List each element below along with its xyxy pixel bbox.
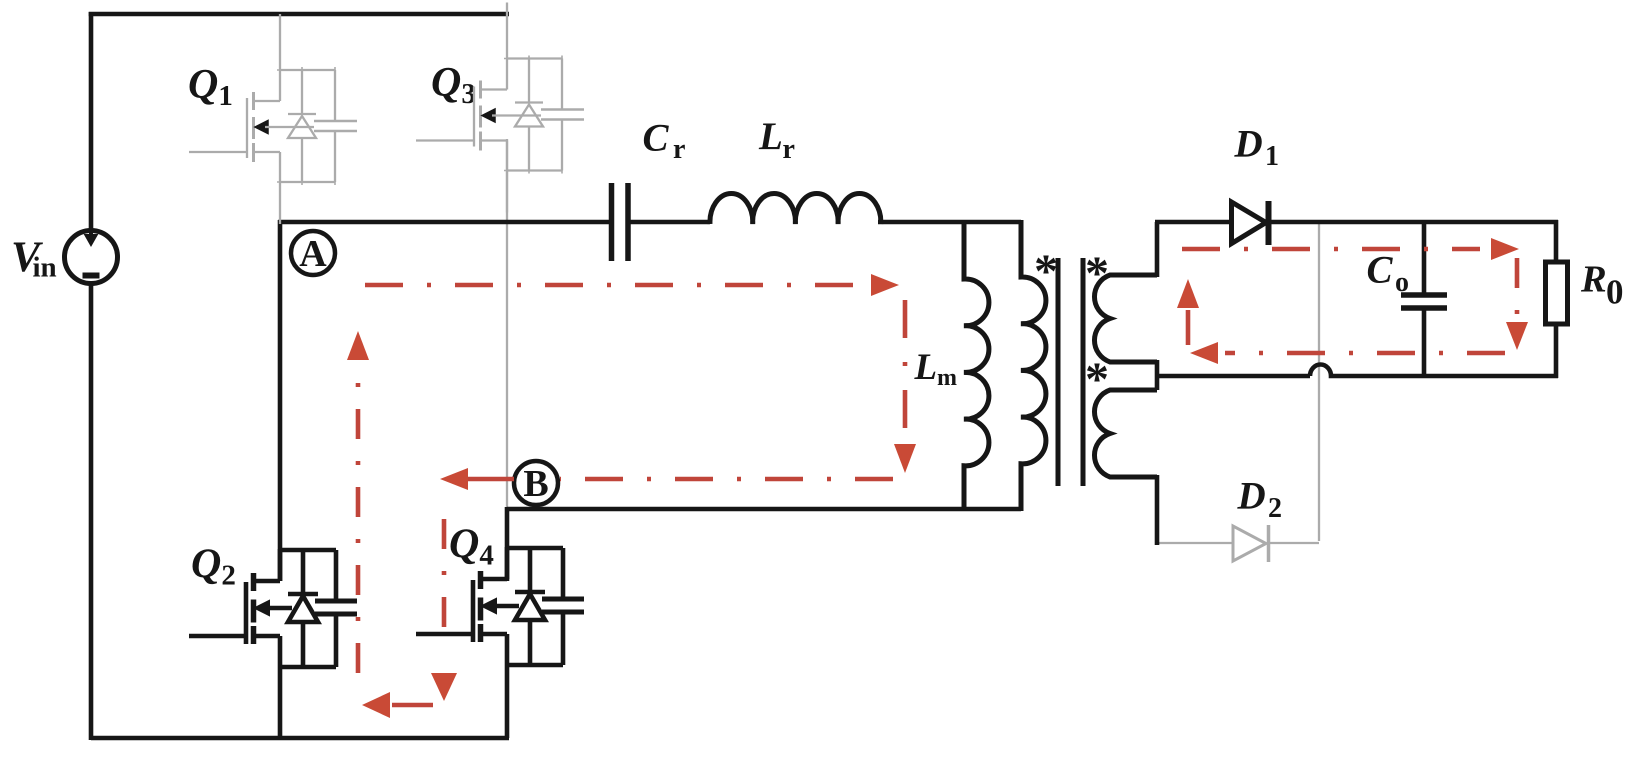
capacitor Cr [612,117,686,262]
current path B to arrow [468,477,514,482]
wire R0 right leg [1554,220,1559,378]
wire D2 horizontal (inactive) [1157,542,1319,544]
svg-text:*: * [1085,353,1109,406]
diode D2 [1233,475,1282,563]
current path secondary left up [1186,310,1191,345]
current path arrow up secondary [1177,279,1199,308]
diode D1 [1232,123,1280,246]
resistor R0 [1546,259,1624,325]
svg-text:L: L [914,347,938,388]
node B [514,461,558,505]
current path arrow right [871,274,899,296]
svg-text:r: r [783,134,795,165]
transistor Q2 [189,542,357,741]
current path primary right down [903,300,908,435]
current path Q2 branch up [356,375,361,673]
transistor Q1 [188,14,357,224]
wire secondary top lead [1155,222,1233,277]
capacitor Co [1367,222,1448,377]
inductor Lr [710,115,881,224]
svg-text:D: D [1237,475,1266,518]
svg-text:in: in [33,252,57,284]
svg-text:B: B [523,463,548,505]
svg-text:0: 0 [1606,273,1624,312]
current path bottom horizontal [392,703,433,708]
transformer T1 secondary top winding [1094,275,1157,362]
current path arrow down secondary [1506,322,1528,350]
wire secondary bottom lead [1155,475,1160,545]
wire bottom rail [91,736,509,741]
wire D2 branch vertical (inactive) [1318,224,1320,541]
svg-text:r: r [673,134,685,165]
wire left rail (input) [89,12,94,740]
svg-text:C: C [643,117,670,160]
current path arrow right secondary [1491,238,1519,260]
svg-text:R: R [1580,259,1607,301]
wire top rail [89,12,509,17]
wire center tap jog [1157,360,1310,390]
svg-text:1: 1 [1265,141,1279,172]
current path secondary bottom [1225,351,1505,356]
wire Q4 drain leg [505,507,510,581]
wire Q3 source to node B (inactive) [506,139,508,509]
svg-text:C: C [1367,249,1394,292]
current path arrow down (into Lm) [894,444,916,473]
svg-text:D: D [1234,123,1263,166]
current path arrow left secondary [1190,342,1218,364]
wire node A horizontal [278,220,1021,225]
transformer T1 core [1058,258,1083,486]
svg-text:A: A [299,233,327,275]
current path arrow left at B [440,468,468,490]
transistor Q4 [416,522,584,739]
inductor Lm [914,220,989,511]
current path secondary top [1182,247,1480,252]
svg-text:L: L [758,115,783,158]
current path arrow down at Q4 [431,673,457,701]
current path arrow up at A [347,331,369,360]
current path secondary right down [1515,258,1520,318]
svg-text:2: 2 [1268,493,1282,524]
transistor Q3 [416,3,584,213]
voltage source Vin [11,230,118,284]
current path arrow left bottom [362,692,390,718]
wire D1 cathode to R0 top [1266,220,1558,225]
current path primary top (A to transformer) [365,283,860,288]
transformer T1 secondary bottom winding [1094,390,1157,477]
svg-text:o: o [1395,267,1409,298]
node A [291,231,335,275]
svg-text:m: m [937,365,957,391]
svg-text:*: * [1085,247,1109,300]
current path node B line [560,477,893,482]
svg-text:*: * [1034,245,1058,298]
transformer T1 primary winding [1021,220,1046,511]
current path Q4 branch down [442,519,447,648]
wire node B horizontal [507,507,1021,512]
wire output bottom with crossover hump [1310,365,1558,377]
wire node A vertical leg [278,220,283,581]
